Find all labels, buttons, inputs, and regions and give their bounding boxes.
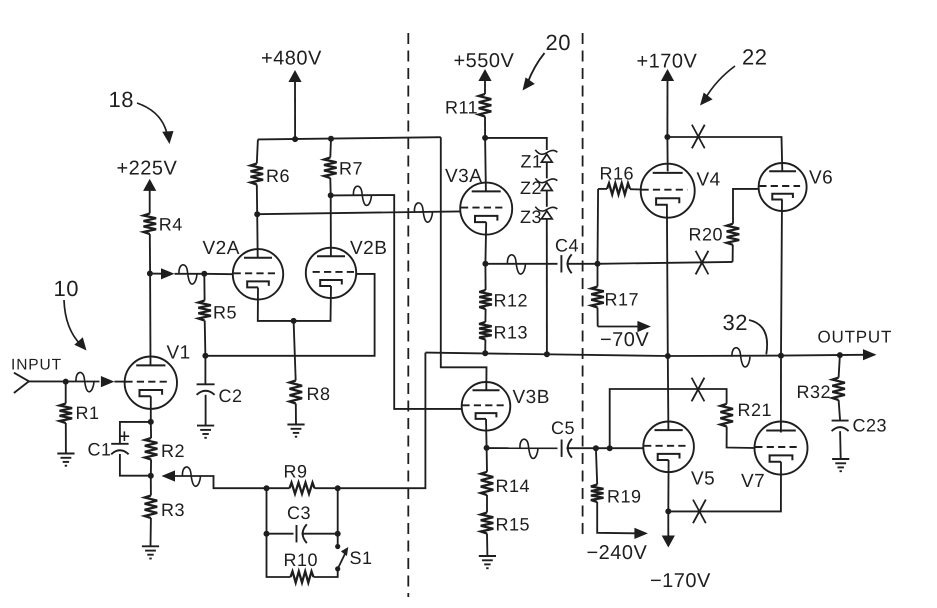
section divider dashed line left <box>407 33 409 597</box>
svg-text:32: 32 <box>723 310 748 335</box>
svg-text:V2A: V2A <box>203 238 240 259</box>
svg-text:R20: R20 <box>689 225 724 245</box>
node C4 / R17 junction <box>595 261 601 267</box>
svg-text:INPUT: INPUT <box>11 357 62 374</box>
wire V5 cathode row to V7 cathode <box>668 462 781 512</box>
triode V2B <box>306 248 356 298</box>
node V2B plate junction <box>328 192 334 198</box>
wire V3A cathode to C4 <box>485 263 557 265</box>
capacitor C3 <box>267 533 294 535</box>
svg-text:+480V: +480V <box>261 48 322 70</box>
resistor R14 <box>486 448 488 472</box>
svg-text:R9: R9 <box>284 462 308 482</box>
svg-text:R2: R2 <box>161 441 185 461</box>
resistor R5 <box>203 274 205 301</box>
wire V4 plate lead <box>666 137 668 171</box>
svg-text:R13: R13 <box>494 323 529 343</box>
triode V7 <box>755 422 808 475</box>
svg-text:−170V: −170V <box>650 570 711 592</box>
node V5 grid junction <box>607 445 613 451</box>
x-mark on R20 row <box>696 251 709 275</box>
wire feedback to R9 <box>175 476 267 488</box>
svg-text:R11: R11 <box>445 98 478 118</box>
svg-text:V7: V7 <box>741 471 765 492</box>
svg-text:C2: C2 <box>219 386 243 406</box>
x-mark on plate row <box>692 125 705 149</box>
svg-text:V3A: V3A <box>445 166 482 187</box>
x-mark on cathode row <box>693 500 706 524</box>
svg-text:V6: V6 <box>809 168 833 189</box>
switch S1 <box>335 544 340 549</box>
wire C3 branch left <box>266 488 268 534</box>
wire V2B cathode <box>294 286 331 321</box>
triode V4 <box>641 164 695 218</box>
node R13 rail junction <box>482 350 488 356</box>
resistor R20 <box>732 245 734 262</box>
triode V3B <box>462 382 511 431</box>
svg-text:C23: C23 <box>853 416 888 436</box>
node +480V arrow junction <box>292 136 298 142</box>
wire node to V2B grid <box>205 274 374 356</box>
wire R4 to V1 plate <box>149 234 151 274</box>
svg-text:R15: R15 <box>496 515 531 535</box>
node V5 cathode junction <box>665 508 671 514</box>
node V1 cathode feedback junction <box>148 473 154 479</box>
plus sign of C1 <box>120 435 130 437</box>
svg-text:C3: C3 <box>287 503 311 523</box>
wire R20 bottom row to C4 node <box>598 262 733 264</box>
wire to zener chain <box>485 138 547 150</box>
triode V2A <box>233 249 283 299</box>
node V6/V7 rail junction <box>778 353 784 359</box>
node C3 left <box>264 531 270 537</box>
svg-text:R3: R3 <box>161 500 185 520</box>
svg-text:R19: R19 <box>607 487 642 507</box>
squiggle on input wire <box>76 372 94 391</box>
node R7 top junction <box>328 136 334 142</box>
wire R9 right down to switch <box>337 488 339 546</box>
node V3A cathode <box>482 261 488 267</box>
wire V3A plate lead <box>484 138 487 192</box>
resistor R16 <box>598 188 607 190</box>
resistor R4 <box>144 214 157 235</box>
input terminal <box>14 373 29 382</box>
squiggle on V2A grid wire <box>179 265 197 284</box>
wire R10 branch <box>267 534 291 577</box>
svg-text:V4: V4 <box>697 170 721 191</box>
squiggle on C4 wire <box>507 255 525 274</box>
node cathode junction V2 <box>291 318 297 324</box>
svg-text:R12: R12 <box>494 291 529 311</box>
ground below R1 <box>57 453 74 455</box>
resistor R10 <box>291 571 314 582</box>
wire V1 cathode lead <box>150 396 152 422</box>
svg-text:R21: R21 <box>738 400 773 420</box>
svg-text:R5: R5 <box>213 303 237 323</box>
resistor R11 <box>479 94 492 117</box>
svg-text:−70V: −70V <box>600 329 649 351</box>
resistor R7 <box>329 139 332 158</box>
squiggle on feedback wire <box>182 467 200 486</box>
zener Z1 <box>541 154 552 162</box>
node V3B cathode <box>484 445 490 451</box>
wire V7 plate lead <box>780 356 782 433</box>
svg-text:R14: R14 <box>496 476 531 496</box>
resistor R13 <box>484 309 486 322</box>
svg-text:22: 22 <box>742 45 767 70</box>
OUTPUT arrow <box>863 349 877 360</box>
wire V3B cathode to C5 <box>487 447 558 449</box>
wire V5 cathode <box>667 460 669 511</box>
svg-text:+170V: +170V <box>637 51 698 73</box>
svg-text:R8: R8 <box>307 384 331 404</box>
x-mark on R21 row <box>692 378 705 402</box>
bias tap -240V <box>634 528 648 539</box>
capacitor C1 <box>120 422 151 444</box>
triode V5 <box>643 422 694 473</box>
node R11 / V3A plate <box>482 135 488 141</box>
resistor R17 <box>597 264 599 287</box>
node input/R1 junction <box>63 379 69 385</box>
node C3 right <box>335 531 341 537</box>
wire output rail <box>425 353 874 356</box>
resistor R15 <box>486 495 488 513</box>
wire V2A cathode <box>258 288 294 321</box>
triode V1 <box>125 357 177 409</box>
wire grid line V2A plate to V3A grid <box>257 211 460 214</box>
wire V5 plate lead <box>667 356 670 431</box>
svg-text:V3B: V3B <box>513 387 550 408</box>
resistor R9 <box>267 487 290 489</box>
wire to V5 grid <box>596 447 644 449</box>
resistor R21 <box>720 404 733 427</box>
wire V5 grid riser to R21 row <box>610 389 727 448</box>
svg-text:R10: R10 <box>284 550 319 570</box>
capacitor C23 <box>832 420 849 422</box>
node V1 cathode <box>148 419 154 425</box>
section divider dashed line right <box>582 33 584 540</box>
capacitor C4 <box>560 255 562 272</box>
svg-text:R7: R7 <box>339 159 363 179</box>
wire V6 cathode to output rail <box>781 200 782 356</box>
svg-text:V1: V1 <box>167 343 191 364</box>
squiggle on C5 wire <box>520 439 538 458</box>
node R5/C2/V2B-grid junction <box>202 353 208 359</box>
wire to V2A grid <box>175 273 205 275</box>
svg-text:C5: C5 <box>551 418 575 438</box>
resistor R3 <box>150 476 152 496</box>
resistor R1 <box>65 382 67 404</box>
svg-text:V2B: V2B <box>350 238 387 259</box>
svg-text:S1: S1 <box>350 548 373 568</box>
node plate of V1 / grid branch <box>147 271 153 277</box>
svg-text:+550V: +550V <box>454 50 515 72</box>
wire zener chain to output rail <box>546 219 548 354</box>
wire V3A cathode lead <box>484 222 487 264</box>
svg-text:R17: R17 <box>605 290 640 310</box>
node V2A plate / grid line junction <box>254 211 260 217</box>
feedback arrow into V1 cathode <box>162 470 176 481</box>
node R32 rail junction <box>837 352 843 358</box>
wire V2A plate lead <box>256 214 259 258</box>
node R9 right <box>335 485 341 491</box>
ground below R8 <box>287 424 304 426</box>
svg-text:Z2: Z2 <box>520 178 542 198</box>
zener Z3 <box>541 211 552 219</box>
triode V6 <box>759 163 807 211</box>
wire V4 cathode to output rail <box>666 205 669 356</box>
ground below C2 <box>197 425 214 427</box>
svg-text:18: 18 <box>109 87 134 112</box>
wire V2B plate lead <box>330 195 332 256</box>
node R5 junction <box>201 271 207 277</box>
wire +480V rail <box>258 137 441 139</box>
resistor R19 <box>596 448 597 484</box>
wire input to grid of V1 <box>29 380 100 382</box>
svg-text:Z3: Z3 <box>520 207 542 227</box>
wire V1 plate lead <box>149 274 151 366</box>
zener Z2 <box>541 183 552 191</box>
node C5 / R19 junction <box>593 445 599 451</box>
resistor R32 <box>839 355 840 378</box>
resistor R12 <box>484 264 486 290</box>
arrow to V2A grid <box>150 273 162 275</box>
svg-text:R4: R4 <box>159 215 183 235</box>
capacitor C2 <box>204 356 206 385</box>
wire +480V to V3B plate <box>441 137 487 390</box>
svg-text:−240V: −240V <box>587 542 648 564</box>
svg-text:20: 20 <box>546 30 571 55</box>
node V4/V5 rail junction <box>665 353 671 359</box>
resistor R8 <box>294 321 296 381</box>
squiggle on V3B grid wire <box>353 186 371 205</box>
resistor R6 <box>257 139 258 163</box>
resistor R2 <box>150 422 152 438</box>
svg-text:R1: R1 <box>76 403 100 423</box>
signal arrow into V1 grid <box>101 376 115 387</box>
triode V3A <box>460 183 512 235</box>
wire V3B cathode lead <box>485 419 488 448</box>
squiggle on output rail <box>732 348 750 367</box>
svg-text:R32: R32 <box>797 382 832 402</box>
svg-text:10: 10 <box>54 276 79 301</box>
ground below R15 <box>479 555 496 557</box>
power -170V <box>667 511 669 535</box>
svg-text:R6: R6 <box>266 166 290 186</box>
wire R16 riser <box>597 189 600 264</box>
wire V2B plate to V3B grid <box>331 195 462 409</box>
node R9 left <box>264 485 270 491</box>
svg-text:OUTPUT: OUTPUT <box>818 328 893 347</box>
svg-text:R16: R16 <box>600 164 635 184</box>
svg-text:C4: C4 <box>555 236 579 256</box>
ground below R3 <box>142 545 159 547</box>
ground below C23 <box>832 458 849 460</box>
node V4 plate junction <box>664 134 670 140</box>
svg-text:Z1: Z1 <box>521 152 543 172</box>
capacitor C5 <box>561 440 563 457</box>
svg-text:+225V: +225V <box>117 158 178 180</box>
svg-text:C1: C1 <box>88 440 112 460</box>
bias tap -70V <box>598 326 638 328</box>
svg-text:V5: V5 <box>691 469 715 490</box>
node zener rail junction <box>544 351 550 357</box>
squiggle on V3A grid wire <box>414 203 432 222</box>
wire plate row V4 to V6 <box>667 137 782 171</box>
wire R9 to feedback riser <box>338 353 426 489</box>
